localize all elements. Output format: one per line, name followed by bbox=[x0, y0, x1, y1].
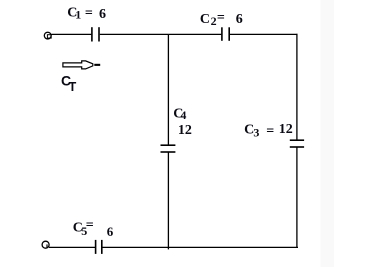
svg-text:T: T bbox=[69, 80, 77, 94]
svg-text:=: = bbox=[266, 124, 274, 139]
svg-text:1: 1 bbox=[75, 7, 81, 21]
terminal bottom-left bbox=[42, 241, 49, 248]
wire bottom terminal to C5 bbox=[49, 246, 95, 248]
svg-text:6: 6 bbox=[236, 12, 243, 27]
wire middle vertical upper (node A to C4) bbox=[167, 34, 169, 145]
svg-text:6: 6 bbox=[107, 224, 114, 239]
label C5 = 6 bbox=[73, 218, 114, 239]
svg-text:2: 2 bbox=[211, 14, 217, 28]
svg-text:=: = bbox=[217, 10, 225, 25]
svg-text:=: = bbox=[86, 218, 94, 233]
wire node A to C2 bbox=[168, 33, 221, 35]
scrollbar strip (faint) bbox=[321, 0, 335, 267]
svg-text:12: 12 bbox=[178, 123, 192, 138]
capacitor C4 bbox=[161, 145, 176, 152]
label CT bbox=[61, 73, 77, 94]
wire right vertical lower (C3 to bottom corner) bbox=[296, 147, 298, 248]
capacitor C5 bbox=[96, 240, 102, 254]
capacitor C2 bbox=[222, 27, 229, 41]
terminal top-left bbox=[44, 32, 51, 39]
node B junction bbox=[0, 0, 1, 1]
svg-text:6: 6 bbox=[99, 7, 106, 22]
svg-text:C: C bbox=[200, 12, 210, 27]
svg-text:=: = bbox=[85, 6, 93, 21]
label C3 = 12 bbox=[244, 122, 293, 140]
label C4 bbox=[173, 107, 186, 122]
node A junction bbox=[0, 0, 1, 1]
capacitor C3 bbox=[290, 140, 304, 147]
wire middle vertical lower (C4 to node B) bbox=[167, 152, 169, 249]
wire right vertical upper (corner to C3) bbox=[296, 34, 298, 140]
label C1 = 6 bbox=[67, 5, 106, 22]
wire bottom C5 to bottom-right corner bbox=[102, 246, 298, 248]
svg-text:3: 3 bbox=[253, 126, 259, 140]
label C2 = 6 bbox=[200, 10, 243, 28]
wire C2 to top-right corner bbox=[230, 33, 298, 35]
svg-text:4: 4 bbox=[180, 108, 186, 122]
svg-text:12: 12 bbox=[279, 122, 293, 137]
wire terminal to C1 bbox=[51, 33, 91, 35]
wire C1 to node A bbox=[100, 33, 169, 35]
arrow CT bbox=[63, 61, 100, 69]
capacitor C1 bbox=[92, 27, 99, 41]
